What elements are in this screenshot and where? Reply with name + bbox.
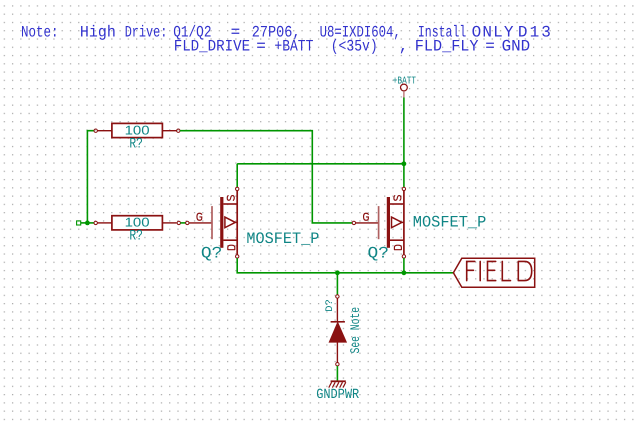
ground symbol GNDPWR — [316, 381, 359, 403]
resistor R2 — [94, 216, 181, 245]
svg-text:Q?: Q? — [368, 245, 389, 263]
svg-text:Drive:: Drive: — [125, 24, 168, 42]
Q1 pin name D — [228, 245, 235, 250]
R1 body — [112, 123, 162, 137]
GNDPWR hatch 1 — [329, 382, 332, 387]
svg-text:+BATT: +BATT — [274, 38, 313, 56]
Q2 source stub — [390, 203, 404, 205]
svg-text:=: = — [485, 38, 495, 56]
wire Q1 drain down then FIELD net horizontal — [237, 258, 453, 273]
D? triangle — [329, 323, 346, 343]
+BATT pin stub — [403, 91, 405, 98]
Q1 bulk stub — [235, 221, 238, 223]
wire junction to R2 left pin — [87, 222, 94, 224]
Q1 source pin end circle — [236, 187, 239, 190]
junction at Q2 drain — [402, 270, 407, 275]
svg-text:=: = — [256, 38, 266, 56]
Q2 pin name G — [364, 213, 369, 220]
D? anode pin — [336, 342, 338, 363]
svg-text:See Note: See Note — [348, 307, 363, 354]
GNDPWR hatch 5 — [343, 382, 346, 387]
diode D? — [325, 295, 363, 366]
power symbol +BATT — [393, 76, 416, 98]
FIELD letter L — [502, 261, 510, 280]
Q2 source-drain rail — [403, 191, 405, 256]
R1 pin 1 — [97, 130, 112, 132]
wire branch to Q1 source vertical — [236, 164, 238, 187]
Q1 source-drain rail — [236, 191, 238, 256]
FIELD flag outline — [453, 258, 534, 287]
svg-text:R?: R? — [129, 229, 143, 245]
svg-text:MOSFET_P: MOSFET_P — [413, 213, 487, 231]
Q2 pin name D — [394, 245, 401, 250]
resistor R1 — [94, 123, 180, 152]
FIELD letter I — [479, 261, 481, 280]
Q1 gate pin — [189, 222, 212, 224]
R2 pin 1 end circle — [94, 221, 97, 224]
svg-text:GNDPWR: GNDPWR — [316, 387, 359, 403]
GNDPWR bar — [331, 380, 346, 382]
R2 pin 2 end circle — [177, 221, 180, 224]
FIELD letter E — [488, 261, 496, 280]
D? cathode bar — [331, 321, 345, 323]
junction at +BATT branch node — [402, 161, 407, 166]
Q1 pin name S — [227, 196, 234, 201]
+BATT circle — [401, 84, 408, 91]
wire diode to ground — [336, 366, 338, 381]
svg-text:(<35v): (<35v) — [331, 38, 378, 56]
FIELD letter F — [467, 261, 475, 280]
svg-text:100: 100 — [125, 123, 150, 137]
Q2 pin name S — [394, 196, 401, 201]
svg-text:R?: R? — [129, 136, 143, 152]
wire branch to Q1 source horizontal — [237, 163, 404, 165]
transistor Q1 MOSFET_P — [186, 187, 320, 262]
Q1 bulk arrow — [225, 217, 235, 228]
Q1 gate pin end circle — [186, 221, 189, 224]
D? anode pin end circle — [336, 363, 339, 366]
svg-text:Note:: Note: — [21, 24, 59, 42]
svg-text:GND: GND — [502, 38, 531, 56]
Q2 bulk stub — [401, 221, 404, 223]
Q2 gate pin — [356, 222, 379, 224]
svg-text:,: , — [399, 38, 409, 56]
D? cathode pin — [336, 298, 338, 322]
R2 body — [112, 216, 162, 230]
Q2 drain pin end circle — [402, 255, 405, 258]
Q1 pin name G — [197, 213, 202, 220]
wire Q2 drain down — [403, 258, 405, 273]
R1 pin 1 end circle — [94, 129, 97, 132]
wire diode branch vertical — [336, 273, 338, 295]
note text line 2 — [174, 38, 531, 56]
svg-text:100: 100 — [125, 216, 150, 230]
transistor Q2 MOSFET_P — [352, 187, 486, 262]
R1 pin 2 — [162, 130, 176, 132]
R1 pin 2 end circle — [177, 129, 180, 132]
Q1 source stub — [223, 203, 237, 205]
Q1 channel bar — [220, 197, 223, 248]
Q1 gate plate — [211, 206, 213, 239]
Q2 gate plate — [378, 206, 380, 239]
GNDPWR hatch 3 — [336, 382, 339, 387]
wire R2 right to Q1 gate — [180, 222, 185, 224]
Q2 channel bar — [387, 197, 390, 248]
Q2 source pin end circle — [402, 187, 405, 190]
svg-text:FLD_FLY: FLD_FLY — [415, 38, 479, 56]
svg-text:+BATT: +BATT — [393, 76, 416, 88]
Q2 gate pin end circle — [352, 221, 355, 224]
R2 pin 1 — [97, 222, 112, 224]
note text line 1 — [21, 24, 551, 42]
Q1 drain pin end circle — [236, 255, 239, 258]
svg-text:MOSFET_P: MOSFET_P — [246, 230, 319, 248]
svg-text:High: High — [80, 24, 116, 42]
D? cathode pin end circle — [336, 295, 339, 298]
svg-text:FLD_DRIVE: FLD_DRIVE — [174, 38, 251, 56]
Q1 drain stub — [223, 239, 237, 241]
GNDPWR hatch 2 — [332, 382, 335, 387]
R2 pin 2 — [162, 222, 176, 224]
svg-text:Q?: Q? — [201, 245, 222, 263]
wire R1 left corner down to R2 row — [87, 131, 94, 223]
FIELD letter D — [518, 261, 531, 280]
GNDPWR hatch 4 — [340, 382, 343, 387]
svg-text:D?: D? — [325, 299, 336, 312]
junction at diode branch — [335, 270, 340, 275]
junction at R2 left node — [85, 221, 90, 226]
unconnected wire end square — [77, 221, 81, 225]
global label FIELD — [453, 258, 534, 287]
Q2 drain stub — [390, 239, 404, 241]
wire R1 right to Q2 gate — [180, 131, 352, 223]
Q2 bulk arrow — [392, 217, 402, 228]
wire +BATT down to Q2 source — [403, 98, 405, 188]
wire stub left of junction — [81, 222, 88, 224]
